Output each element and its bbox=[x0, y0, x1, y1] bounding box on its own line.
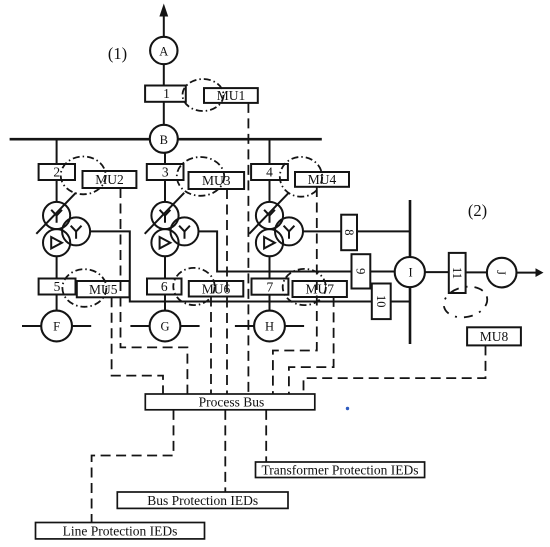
svg-text:MU3: MU3 bbox=[202, 173, 231, 188]
wire breaker 9 to I bbox=[370, 271, 395, 273]
breaker 11 bbox=[449, 253, 466, 293]
wire breaker 7 to H bbox=[269, 295, 271, 311]
wire T1 tertiary to breaker 10 line bbox=[90, 231, 372, 301]
merging unit MU5 bbox=[77, 281, 130, 297]
breaker 3 bbox=[147, 164, 184, 180]
wire transformer T2 to breaker 6 bbox=[164, 256, 166, 278]
breaker 1 bbox=[145, 86, 186, 102]
group ellipse 4/MU4 bbox=[280, 157, 322, 197]
svg-text:4: 4 bbox=[266, 165, 273, 180]
merging unit MU7 bbox=[293, 281, 347, 297]
svg-text:Process Bus: Process Bus bbox=[199, 395, 265, 410]
wire bus to breaker 3 bbox=[164, 139, 166, 164]
transformer T3 (branch H) bbox=[249, 193, 303, 256]
wire MU5 to Process Bus bbox=[112, 297, 163, 394]
stray blue dot bbox=[346, 407, 349, 410]
stub right of H bbox=[285, 325, 304, 327]
wire MU6 to Process Bus bbox=[210, 297, 212, 394]
wire MU1 to Process Bus bbox=[247, 103, 249, 394]
group ellipse 1/MU1 bbox=[183, 79, 224, 111]
wire MU2 to Process Bus bbox=[121, 188, 188, 394]
breaker 6 bbox=[147, 279, 182, 295]
breaker 10 bbox=[372, 284, 391, 320]
wire breaker 11 to J bbox=[466, 271, 487, 273]
svg-text:11: 11 bbox=[450, 267, 464, 279]
Transformer Protection IEDs box bbox=[256, 462, 425, 478]
arrowhead of outgoing line bbox=[536, 268, 544, 277]
wire Process Bus to Transformer Protection IEDs bbox=[265, 410, 267, 462]
svg-text:MU8: MU8 bbox=[480, 329, 509, 344]
wire breaker 1 to B bbox=[163, 102, 165, 125]
breaker 4 bbox=[251, 164, 288, 180]
svg-text:10: 10 bbox=[374, 295, 388, 308]
wire I to breaker 11 bbox=[425, 271, 449, 273]
stub left of H bbox=[235, 325, 254, 327]
wire MU3 to Process Bus bbox=[226, 189, 228, 394]
wire breaker 6 to G bbox=[164, 295, 166, 311]
svg-text:5: 5 bbox=[54, 279, 61, 294]
transformer T1 (branch F) bbox=[36, 193, 90, 256]
node J bbox=[487, 258, 517, 288]
wire outgoing line from J bbox=[517, 272, 537, 274]
breaker 5 bbox=[39, 279, 76, 295]
svg-text:MU1: MU1 bbox=[217, 88, 246, 103]
svg-text:(2): (2) bbox=[468, 201, 487, 220]
wire breaker 5 to F bbox=[56, 295, 58, 311]
node F bbox=[41, 311, 72, 342]
node H bbox=[254, 311, 285, 342]
svg-text:9: 9 bbox=[354, 268, 368, 274]
wire transformer T3 to breaker 7 bbox=[269, 256, 271, 278]
svg-text:Bus Protection IEDs: Bus Protection IEDs bbox=[147, 493, 258, 508]
wire T3 tertiary to breaker 8 bbox=[303, 230, 342, 232]
wire breaker 3 to transformer T2 bbox=[164, 180, 166, 202]
wire MU7 to Process Bus bbox=[289, 297, 334, 394]
svg-text:G: G bbox=[160, 320, 169, 334]
node B bbox=[150, 125, 178, 153]
svg-text:F: F bbox=[53, 320, 60, 334]
wire A to breaker 1 bbox=[163, 64, 165, 85]
svg-text:7: 7 bbox=[267, 279, 274, 294]
svg-text:Transformer Protection IEDs: Transformer Protection IEDs bbox=[262, 463, 419, 478]
wire bus to breaker 2 bbox=[56, 139, 58, 164]
bus B bbox=[10, 138, 322, 141]
svg-text:MU4: MU4 bbox=[308, 172, 337, 187]
transformer T2 (branch G) bbox=[145, 193, 199, 256]
wire transformer T1 to breaker 5 bbox=[56, 256, 58, 278]
breaker 8 bbox=[341, 215, 357, 251]
node A bbox=[150, 37, 177, 64]
group ellipse 2/MU2 bbox=[61, 157, 106, 195]
merging unit MU3 bbox=[189, 172, 245, 189]
svg-text:(1): (1) bbox=[108, 44, 127, 63]
stub right of G bbox=[180, 325, 199, 327]
svg-text:Line Protection IEDs: Line Protection IEDs bbox=[63, 524, 178, 539]
svg-text:MU7: MU7 bbox=[305, 282, 334, 297]
wire MU4 to Process Bus bbox=[273, 187, 317, 394]
group ellipse 3/MU3 bbox=[177, 157, 224, 196]
stub left of G bbox=[130, 325, 149, 327]
breaker 7 bbox=[252, 279, 289, 295]
group ellipse 5/MU5 bbox=[62, 269, 106, 307]
svg-text:H: H bbox=[265, 320, 274, 334]
svg-text:MU2: MU2 bbox=[95, 172, 124, 187]
svg-text:MU5: MU5 bbox=[89, 282, 118, 297]
svg-text:B: B bbox=[160, 133, 168, 147]
breaker 9 bbox=[352, 254, 371, 288]
merging unit MU1 bbox=[204, 88, 258, 103]
svg-text:J: J bbox=[494, 270, 508, 275]
group ellipse 6/MU6 bbox=[173, 268, 214, 305]
wire breaker 10 to bus 2 bbox=[391, 301, 410, 303]
stub left of F bbox=[22, 325, 41, 327]
arrowhead of incoming line bbox=[159, 4, 168, 17]
merging unit MU4 bbox=[295, 172, 349, 187]
wire breaker 2 to transformer T1 bbox=[56, 180, 58, 202]
wire T2 tertiary to breaker 9 bbox=[199, 231, 352, 271]
group ellipse 11/MU8 bbox=[441, 283, 490, 321]
wire Process Bus to Bus Protection IEDs bbox=[224, 410, 226, 492]
svg-text:I: I bbox=[409, 266, 413, 280]
svg-text:A: A bbox=[159, 45, 168, 59]
stub right of F bbox=[72, 325, 91, 327]
wire bus to breaker 4 bbox=[269, 139, 271, 164]
svg-text:3: 3 bbox=[162, 165, 169, 180]
Bus Protection IEDs box bbox=[117, 492, 288, 508]
node G bbox=[150, 311, 181, 342]
wire breaker 4 to transformer T3 bbox=[269, 180, 271, 202]
Line Protection IEDs box bbox=[36, 523, 205, 539]
wire breaker 8 to bus 2 bbox=[357, 230, 410, 232]
svg-text:2: 2 bbox=[53, 165, 60, 180]
wire incoming line arrow to A bbox=[163, 15, 165, 37]
wire MU8 to Process Bus bbox=[304, 345, 486, 394]
svg-text:8: 8 bbox=[342, 229, 356, 235]
bus 2 bbox=[409, 200, 412, 344]
breaker 2 bbox=[39, 164, 75, 180]
merging unit MU2 bbox=[83, 171, 137, 188]
svg-text:MU6: MU6 bbox=[202, 281, 231, 296]
group ellipse 7/MU7 bbox=[283, 269, 326, 305]
wire Process Bus to Line Protection IEDs bbox=[92, 410, 174, 523]
Process Bus box bbox=[145, 394, 314, 410]
merging unit MU6 bbox=[189, 281, 244, 297]
merging unit MU8 bbox=[467, 327, 521, 345]
svg-text:1: 1 bbox=[163, 86, 170, 101]
svg-text:6: 6 bbox=[161, 279, 168, 294]
node I bbox=[395, 257, 425, 287]
